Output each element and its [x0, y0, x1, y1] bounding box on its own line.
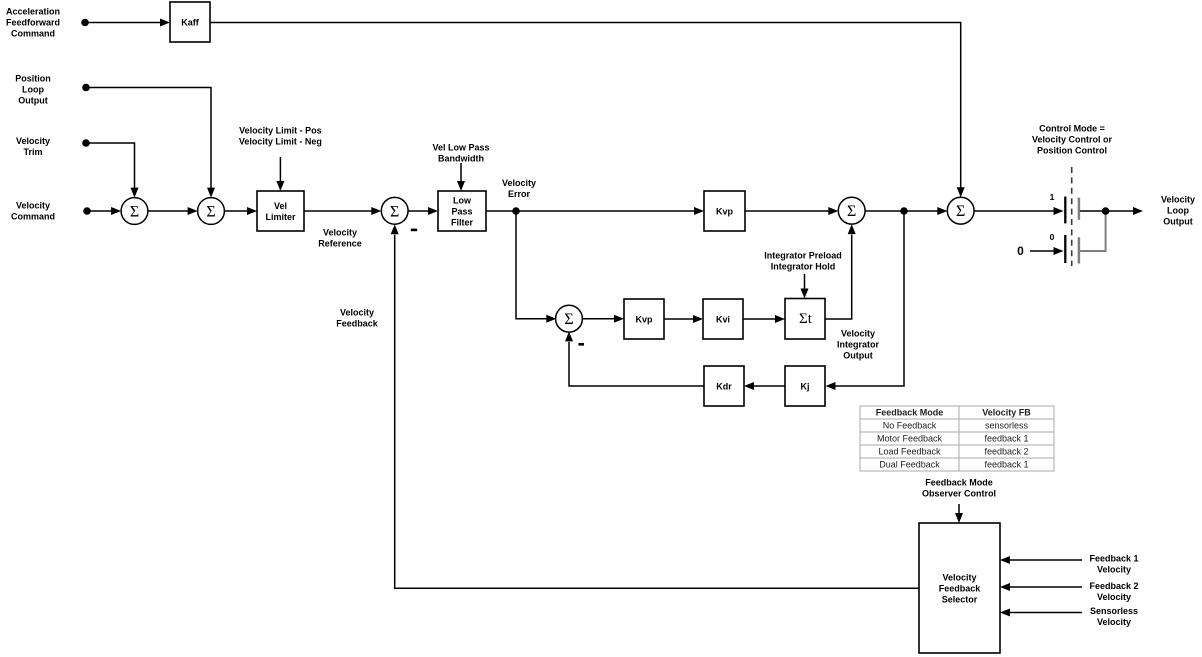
svg-text:Command: Command	[11, 211, 55, 221]
wire: S6 to lower Kvp	[582, 318, 615, 320]
gain block Kvi	[703, 299, 743, 339]
svg-text:Low: Low	[453, 195, 472, 205]
wire: Kaff output to sum S5	[210, 23, 961, 188]
svg-text:Velocity: Velocity	[841, 328, 875, 338]
svg-text:0: 0	[1050, 232, 1055, 242]
svg-text:Acceleration: Acceleration	[6, 6, 60, 16]
svg-text:Σ: Σ	[847, 203, 856, 220]
svg-text:Limiter: Limiter	[265, 212, 296, 222]
wire: Low Pass Filter to Kvp	[486, 210, 695, 212]
svg-text:feedback 1: feedback 1	[984, 434, 1028, 444]
svg-text:Bandwidth: Bandwidth	[438, 153, 484, 163]
svg-text:0: 0	[1017, 244, 1024, 258]
wire: switch to velocity loop output	[1080, 210, 1134, 212]
svg-text:Kdr: Kdr	[716, 381, 732, 391]
svg-text:Σ: Σ	[564, 311, 573, 328]
wire: switch contact 0 to output node (gray)	[1080, 212, 1106, 251]
svg-text:Feedback 2: Feedback 2	[1089, 581, 1138, 591]
summing junction S5	[947, 197, 974, 224]
svg-text:Velocity: Velocity	[1161, 194, 1195, 204]
svg-text:Motor Feedback: Motor Feedback	[877, 434, 943, 444]
wire: Kvi to integrator	[743, 318, 776, 320]
svg-text:Observer Control: Observer Control	[922, 488, 996, 498]
gain block Kdr	[704, 366, 744, 406]
svg-text:Integrator Preload: Integrator Preload	[764, 251, 842, 261]
summing junction S6	[556, 305, 583, 332]
svg-text:Dual Feedback: Dual Feedback	[879, 460, 940, 470]
svg-text:Velocity Limit - Pos: Velocity Limit - Pos	[239, 125, 322, 135]
wire: lower Kvp to Kvi	[664, 318, 694, 320]
svg-text:Σt: Σt	[799, 311, 813, 327]
wire: S5 to control mode switch	[974, 210, 1054, 212]
svg-text:Position: Position	[15, 73, 51, 83]
svg-text:Velocity Control or: Velocity Control or	[1032, 134, 1113, 144]
svg-text:Σ: Σ	[130, 204, 139, 221]
wire: torque node down to Kj	[835, 211, 904, 386]
node: velocity error junction	[512, 207, 520, 215]
integrator block Sigma-t	[785, 299, 825, 340]
svg-text:Control Mode =: Control Mode =	[1039, 123, 1105, 133]
node: output junction	[1102, 207, 1110, 215]
svg-text:Pass: Pass	[451, 206, 472, 216]
node: torque reference junction	[900, 207, 908, 215]
wire: velocity error down to sum S6	[516, 211, 547, 319]
wire: bandwidth into Low Pass Filter	[460, 163, 462, 182]
wire: velocity command to sum S1	[87, 210, 112, 212]
svg-text:Output: Output	[1163, 216, 1193, 226]
svg-text:Velocity: Velocity	[1097, 592, 1131, 602]
svg-text:feedback 2: feedback 2	[984, 447, 1028, 457]
wire: velocity limits into Vel Limiter	[279, 157, 281, 182]
svg-text:Σ: Σ	[206, 204, 215, 221]
svg-text:Vel: Vel	[274, 201, 287, 211]
node: velocity command source	[83, 207, 91, 215]
svg-text:Filter: Filter	[451, 217, 474, 227]
gain block Kaff	[170, 2, 210, 42]
svg-text:Kj: Kj	[801, 381, 810, 391]
node: position loop output source	[82, 84, 90, 92]
svg-text:Position Control: Position Control	[1037, 145, 1107, 155]
wire: S3 to Low Pass Filter	[408, 210, 428, 212]
svg-text:Velocity: Velocity	[340, 307, 374, 317]
table: feedback mode vs velocity FB	[860, 406, 1054, 471]
block Low Pass Filter	[438, 191, 486, 231]
svg-text:Velocity: Velocity	[942, 572, 976, 582]
svg-text:feedback 1: feedback 1	[984, 460, 1028, 470]
wire: S1 to S2	[148, 210, 188, 212]
svg-text:sensorless: sensorless	[985, 421, 1029, 431]
svg-text:Σ: Σ	[390, 203, 399, 220]
wire: integrator output up to sum S4	[825, 235, 852, 319]
svg-text:Output: Output	[843, 350, 873, 360]
wire: acceleration feedforward to Kaff	[85, 22, 161, 24]
summing junction S2	[198, 198, 225, 225]
wire: Kvp to sum S4	[745, 210, 829, 212]
wire: feedback 2 velocity into selector	[1010, 586, 1083, 588]
svg-text:Σ: Σ	[956, 203, 965, 220]
switch contact 1 right bar	[1078, 198, 1081, 220]
wire: constant 0 into switch contact 0	[1030, 250, 1054, 252]
gain block Kj	[785, 366, 825, 406]
wire: feedback 1 velocity into selector	[1010, 559, 1083, 561]
svg-text:Loop: Loop	[22, 84, 44, 94]
svg-text:No Feedback: No Feedback	[883, 421, 937, 431]
wire: preload/hold into integrator	[804, 274, 806, 289]
svg-text:1: 1	[1050, 192, 1055, 202]
svg-text:Output: Output	[18, 95, 48, 105]
svg-text:Feedback Mode: Feedback Mode	[876, 408, 944, 418]
summing junction S1	[121, 198, 148, 225]
svg-text:Velocity: Velocity	[323, 227, 357, 237]
svg-text:Error: Error	[508, 189, 531, 199]
svg-text:Loop: Loop	[1167, 205, 1189, 215]
svg-text:Kaff: Kaff	[181, 17, 200, 27]
summing junction S4	[838, 197, 865, 224]
svg-text:Velocity FB: Velocity FB	[982, 408, 1031, 418]
svg-text:Load Feedback: Load Feedback	[878, 447, 941, 457]
wire: Kdr to sum S6	[569, 342, 704, 386]
minus sign at S3 feedback input	[411, 229, 417, 232]
switch contact 0 right bar	[1078, 237, 1081, 263]
svg-text:Sensorless: Sensorless	[1090, 606, 1138, 616]
wire: Kj to Kdr	[754, 385, 786, 387]
switch contact 1 left bar	[1064, 197, 1066, 224]
gain block Kvp (proportional)	[704, 191, 745, 231]
svg-text:Feedback: Feedback	[939, 583, 982, 593]
gain block Kvp (integrator path)	[624, 299, 664, 339]
svg-text:Velocity: Velocity	[1097, 617, 1131, 627]
svg-text:Selector: Selector	[942, 594, 978, 604]
summing junction S3	[381, 197, 408, 224]
svg-text:Velocity: Velocity	[502, 178, 536, 188]
block Velocity Feedback Selector	[919, 523, 1000, 653]
svg-text:Kvi: Kvi	[716, 314, 730, 324]
svg-text:Velocity: Velocity	[1097, 564, 1131, 574]
wire: S2 to Vel Limiter	[225, 210, 248, 212]
wire: selector output to sum S3 (velocity feedback)	[395, 235, 919, 589]
svg-text:Feedback Mode: Feedback Mode	[925, 477, 993, 487]
svg-text:Reference: Reference	[318, 238, 362, 248]
svg-text:Feedback 1: Feedback 1	[1089, 553, 1138, 563]
svg-text:Kvp: Kvp	[716, 206, 734, 216]
wire: Vel Limiter to sum S3	[304, 210, 372, 212]
svg-text:Feedback: Feedback	[336, 318, 379, 328]
svg-text:Trim: Trim	[23, 147, 42, 157]
svg-text:Kvp: Kvp	[635, 314, 653, 324]
svg-text:Integrator Hold: Integrator Hold	[771, 262, 836, 272]
switch contact 0 left bar	[1064, 235, 1066, 263]
wire: position loop output to sum S2	[86, 88, 211, 189]
wire: sensorless velocity into selector	[1010, 612, 1083, 614]
switch dashed actuator line	[1071, 167, 1073, 266]
minus sign at S6 feedback input	[578, 343, 584, 346]
node: velocity trim source	[82, 139, 90, 147]
svg-text:Velocity: Velocity	[16, 200, 50, 210]
wire: feedback mode/observer control into selector	[958, 504, 960, 514]
svg-text:Vel Low Pass: Vel Low Pass	[432, 142, 489, 152]
svg-text:Velocity: Velocity	[16, 136, 50, 146]
wire: S4 to sum S5	[865, 210, 938, 212]
svg-text:Command: Command	[11, 28, 55, 38]
node: acceleration feedforward source	[81, 19, 89, 27]
wire: velocity trim to sum S1	[86, 143, 135, 188]
svg-text:Velocity Limit - Neg: Velocity Limit - Neg	[239, 136, 322, 146]
svg-text:Integrator: Integrator	[837, 339, 880, 349]
svg-text:Feedforward: Feedforward	[6, 17, 60, 27]
block Vel Limiter	[257, 191, 304, 231]
